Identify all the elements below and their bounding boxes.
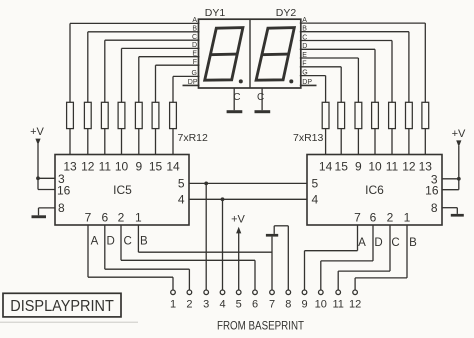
svg-text:D: D (374, 237, 382, 249)
svg-text:2: 2 (387, 211, 394, 225)
svg-text:+V: +V (30, 126, 44, 138)
svg-text:9: 9 (135, 160, 142, 174)
svg-text:11: 11 (332, 299, 343, 311)
svg-text:FROM BASEPRINT: FROM BASEPRINT (217, 318, 305, 332)
svg-text:7xR12: 7xR12 (178, 132, 209, 144)
svg-text:B: B (409, 237, 417, 249)
svg-text:10: 10 (315, 299, 327, 311)
svg-text:6: 6 (101, 211, 108, 225)
svg-text:14: 14 (166, 160, 180, 174)
svg-text:2: 2 (118, 211, 125, 225)
svg-text:15: 15 (149, 160, 163, 174)
svg-text:2: 2 (186, 299, 192, 311)
svg-text:C: C (257, 92, 264, 103)
svg-text:7xR13: 7xR13 (293, 132, 324, 144)
svg-text:5: 5 (236, 299, 242, 311)
svg-text:10: 10 (368, 160, 382, 174)
svg-text:13: 13 (63, 160, 77, 174)
svg-text:4: 4 (178, 192, 185, 206)
svg-text:11: 11 (99, 160, 112, 174)
svg-text:9: 9 (355, 160, 362, 174)
svg-text:C: C (233, 92, 240, 103)
svg-text:8: 8 (58, 201, 65, 215)
svg-text:IC6: IC6 (365, 183, 384, 197)
svg-text:7: 7 (85, 211, 92, 225)
svg-text:1: 1 (170, 299, 176, 311)
svg-text:IC5: IC5 (113, 183, 132, 197)
svg-text:D: D (106, 236, 114, 248)
svg-text:8: 8 (285, 299, 291, 311)
svg-text:16: 16 (57, 183, 71, 197)
svg-text:+V: +V (231, 214, 245, 226)
svg-text:A: A (91, 236, 99, 248)
svg-text:12: 12 (349, 299, 361, 311)
svg-text:1: 1 (404, 211, 411, 225)
svg-text:4: 4 (219, 299, 225, 311)
svg-text:5: 5 (312, 176, 319, 190)
svg-text:DISPLAYPRINT: DISPLAYPRINT (10, 298, 114, 315)
svg-text:12: 12 (402, 160, 416, 174)
svg-text:9: 9 (301, 299, 307, 311)
svg-text:12: 12 (81, 160, 95, 174)
svg-text:15: 15 (335, 160, 349, 174)
svg-text:7: 7 (269, 299, 275, 311)
svg-text:A: A (358, 237, 366, 249)
svg-text:B: B (140, 236, 148, 248)
svg-text:6: 6 (252, 299, 258, 311)
svg-text:8: 8 (431, 201, 438, 215)
svg-text:1: 1 (135, 211, 142, 225)
svg-text:C: C (123, 236, 131, 248)
svg-text:DY2: DY2 (276, 7, 297, 19)
svg-text:10: 10 (115, 160, 129, 174)
svg-text:6: 6 (370, 211, 377, 225)
svg-text:DY1: DY1 (205, 7, 226, 19)
svg-text:4: 4 (312, 192, 319, 206)
svg-text:+V: +V (452, 128, 466, 140)
svg-text:3: 3 (203, 299, 209, 311)
svg-text:14: 14 (319, 160, 333, 174)
svg-text:16: 16 (425, 184, 439, 198)
svg-text:5: 5 (178, 176, 185, 190)
svg-text:7: 7 (354, 211, 361, 225)
svg-text:11: 11 (386, 160, 399, 174)
svg-text:C: C (391, 237, 399, 249)
